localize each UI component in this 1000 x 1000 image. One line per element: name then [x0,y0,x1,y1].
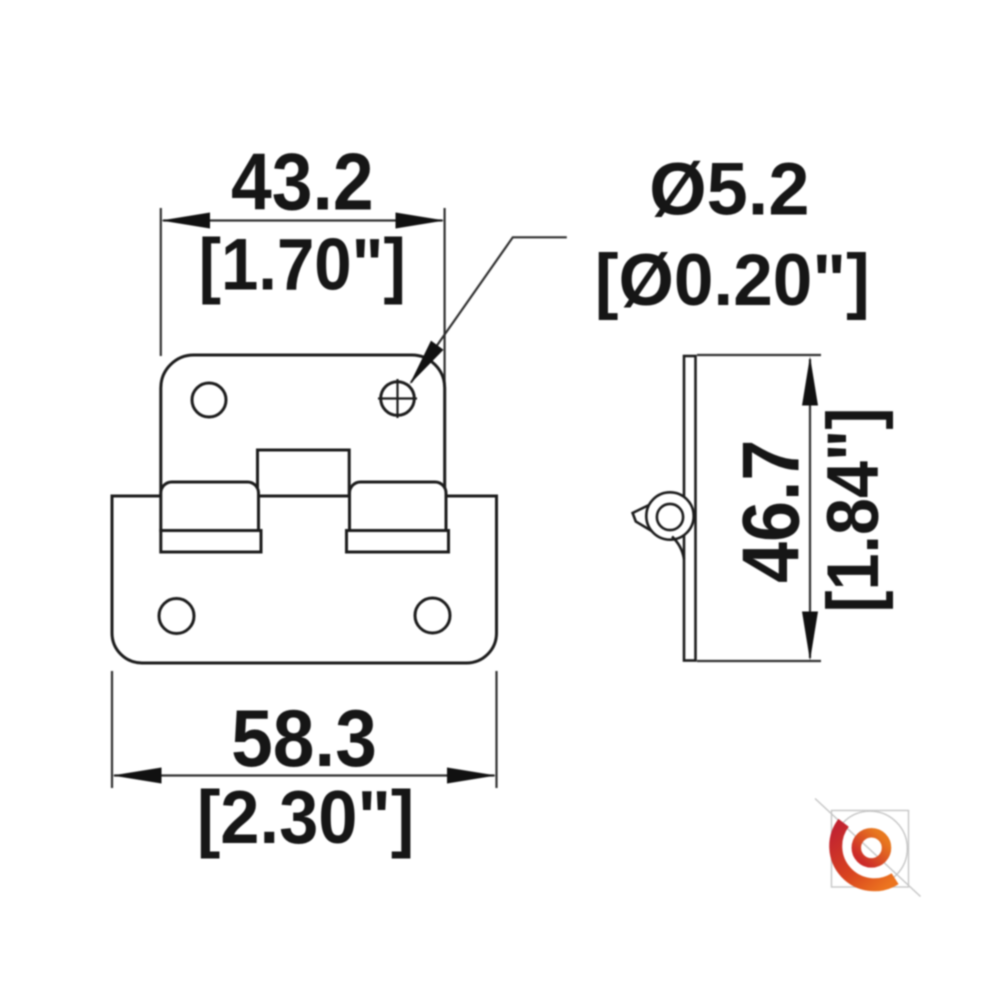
svg-text:Ø5.2: Ø5.2 [649,148,809,231]
svg-text:[2.30"]: [2.30"] [197,776,415,859]
svg-text:[1.84"]: [1.84"] [812,408,894,613]
svg-text:[Ø0.20"]: [Ø0.20"] [595,240,870,321]
svg-text:[1.70"]: [1.70"] [199,224,406,305]
svg-text:43.2: 43.2 [231,137,374,227]
svg-text:58.3: 58.3 [231,692,377,783]
svg-text:46.7: 46.7 [726,440,816,583]
